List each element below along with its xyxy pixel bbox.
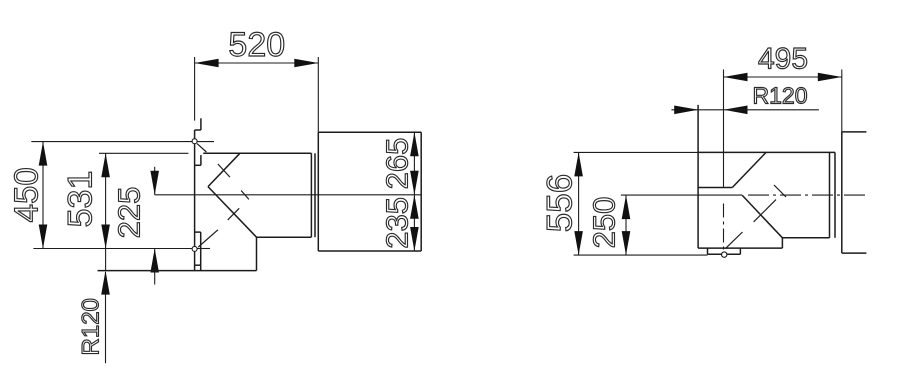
elbow body left view [98, 118, 422, 270]
mitre seam upper D1 [208, 153, 240, 186]
dimension 520 top [195, 26, 319, 132]
upper pivot marker [192, 139, 197, 144]
dimension 265 [380, 132, 419, 195]
dimension R120 left view [78, 271, 110, 364]
outlet flange double [829, 152, 831, 237]
duct bottom edge [257, 236, 312, 238]
svg-text:520: 520 [228, 26, 285, 64]
top edge [574, 151, 699, 153]
mid line [155, 194, 422, 196]
svg-text:531: 531 [61, 171, 99, 228]
ext stubs [197, 141, 214, 143]
left wall [194, 130, 196, 271]
svg-text:265: 265 [380, 138, 415, 190]
svg-text:R120: R120 [78, 298, 105, 355]
connection box [318, 132, 421, 251]
tick on mid line [241, 191, 249, 200]
upper horizontal seam [698, 187, 732, 189]
tick on centre line [774, 185, 786, 197]
dimension 495 [724, 43, 842, 188]
svg-text:R120: R120 [753, 83, 808, 109]
mating component cut off [842, 132, 867, 253]
dimension 556 [541, 152, 583, 255]
bottom edge [574, 254, 708, 256]
tick on D1 [218, 164, 230, 177]
dimension 531 [61, 153, 188, 270]
dimension 250 [587, 195, 631, 255]
dimension 235 [380, 195, 419, 251]
upper bracket [200, 118, 202, 130]
inner wall [256, 237, 258, 270]
mitre seam D2 [742, 195, 782, 237]
svg-text:235: 235 [380, 197, 415, 249]
lower pivot marker [192, 246, 197, 251]
centre line vertical dashed [723, 204, 725, 253]
step [781, 238, 783, 248]
tick on D2 [228, 208, 240, 220]
svg-text:450: 450 [8, 167, 45, 222]
dimension R120 right view [671, 83, 819, 115]
bottom flange plate [707, 248, 709, 254]
bottom flange strip [200, 232, 202, 271]
bottom opening edge [98, 270, 257, 272]
svg-text:495: 495 [758, 43, 808, 76]
elbow body right view [574, 105, 866, 257]
lower bracket [200, 155, 202, 165]
duct top edge [203, 152, 311, 154]
mitre seam lower D2 [208, 187, 257, 238]
mitre seam D1 [732, 152, 766, 187]
tick on D2 [754, 200, 776, 222]
opening rim [698, 247, 782, 249]
inner wall vertical [697, 105, 699, 248]
bottom marker [722, 252, 727, 257]
dimension 450 [8, 142, 192, 249]
svg-text:556: 556 [541, 174, 580, 232]
svg-text:225: 225 [111, 187, 146, 239]
dimension 225 [111, 167, 159, 285]
svg-text:250: 250 [587, 197, 622, 249]
centre line horizontal [621, 194, 742, 196]
outlet flange [310, 153, 312, 237]
